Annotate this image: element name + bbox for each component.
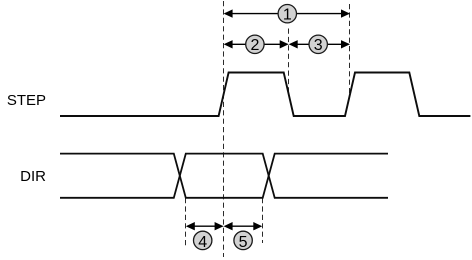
reference line tC (rising edge 2) [349, 4, 351, 96]
DIR waveform lower trace [60, 154, 388, 198]
callout circle 3 [309, 35, 327, 54]
callout circle 5 [234, 231, 252, 251]
callout circle 1 [278, 5, 296, 24]
dimension arrow 5 (DIR hold time) [224, 222, 263, 230]
reference line tA (rising edge 1, full height) [223, 1, 225, 257]
dimension arrow 4 (DIR setup time) [186, 222, 224, 230]
callout circle 4 [194, 231, 212, 251]
svg-text:STEP: STEP [7, 92, 46, 109]
reference line tE (DIR transition start) [262, 198, 264, 243]
dimension arrow 2 (STEP high time) [224, 40, 289, 48]
callout circle 2 [246, 35, 264, 54]
svg-text:4: 4 [198, 234, 207, 251]
reference line tB (falling edge 1) [288, 29, 290, 96]
svg-text:3: 3 [314, 37, 323, 54]
dimension arrow 3 (STEP low time) [289, 40, 350, 48]
svg-text:5: 5 [239, 234, 248, 251]
svg-text:DIR: DIR [20, 168, 46, 185]
svg-text:2: 2 [250, 37, 259, 54]
DIR waveform upper trace [60, 154, 388, 198]
svg-text:1: 1 [283, 7, 292, 24]
reference line tD (DIR transition end) [185, 198, 187, 247]
STEP waveform [60, 73, 470, 117]
dimension arrow 1 (STEP period) [224, 9, 350, 17]
